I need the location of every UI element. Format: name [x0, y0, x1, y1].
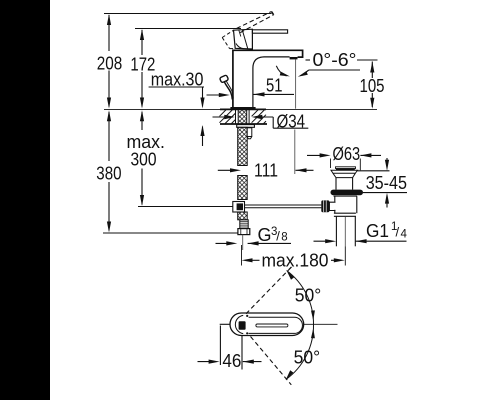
lever inner outline: [249, 317, 303, 333]
svg-text:8: 8: [281, 232, 287, 244]
handle housing (cartridge): [234, 29, 253, 49]
svg-text:max.30: max.30: [151, 69, 204, 89]
O-ring seal: [331, 190, 364, 196]
dim 111: [218, 169, 236, 171]
pop-up rod clamp at hose: [233, 202, 245, 213]
housing internal lines: [242, 30, 248, 49]
side port stem: [329, 202, 335, 210]
ext line left: [219, 326, 221, 366]
svg-text:300: 300: [131, 150, 157, 170]
deck top line: [104, 108, 220, 110]
centerline right: [304, 323, 338, 325]
faucet body outline: [233, 50, 303, 107]
knurled knob: [321, 200, 329, 212]
svg-text:50°: 50°: [295, 286, 322, 306]
dim 208: [108, 15, 110, 51]
drain centerline: [344, 217, 346, 246]
lever slot: [256, 324, 288, 327]
screw dots: [246, 315, 248, 317]
svg-text:G: G: [258, 225, 272, 245]
swing dashed upper: [246, 270, 289, 314]
hub inner arc: [235, 315, 243, 333]
supply hose lower: [238, 176, 248, 200]
ref line 380 bottom: [103, 232, 238, 234]
dim 380: [108, 112, 110, 161]
handle top view capsule: [230, 313, 304, 336]
hose below clamp: [238, 212, 248, 220]
lever (rest position): [252, 30, 287, 33]
svg-text:4: 4: [401, 229, 408, 241]
mounting shank through deck: [235, 109, 237, 124]
dim Ø63: [307, 154, 326, 156]
swing arc: [287, 271, 314, 325]
lifter wire: [224, 82, 232, 100]
svg-text:111: 111: [254, 161, 278, 181]
svg-text:G1: G1: [366, 221, 389, 241]
svg-text:Ø63: Ø63: [333, 144, 361, 164]
deck hatching: [220, 110, 226, 116]
swing dashed lower: [251, 337, 292, 385]
svg-text:Ø34: Ø34: [277, 111, 306, 131]
svg-text:max.180: max.180: [262, 250, 329, 270]
rod guide tube: [247, 128, 252, 137]
aerator outlet: [290, 57, 298, 59]
dim 51: [254, 93, 295, 95]
dim 172: [141, 30, 143, 55]
pop-up rod to drain: [245, 204, 322, 206]
left black sidebar: [0, 0, 50, 400]
svg-text:0°-6°: 0°-6°: [313, 50, 357, 70]
dim 35-45: [358, 170, 390, 172]
drain shoulder: [334, 212, 356, 214]
spout centerline: [295, 59, 297, 108]
tailpiece G1 1/4: [335, 216, 337, 246]
lever raised (dashed): [237, 12, 272, 29]
dim Ø34 hole with leader: [213, 116, 232, 118]
drain plug top: [336, 167, 356, 169]
housing ghost (dashed): [222, 30, 233, 37]
ext line hub center: [241, 336, 243, 370]
drain neck: [335, 178, 337, 190]
mounting nut plate: [237, 125, 255, 128]
deck bottom line: [220, 123, 267, 125]
dim 105: [371, 62, 373, 79]
svg-text:105: 105: [360, 76, 385, 96]
svg-text:51: 51: [266, 75, 283, 95]
svg-text:380: 380: [96, 164, 121, 184]
drain body: [334, 196, 336, 202]
hose threaded end: [240, 220, 248, 229]
dim 46: [198, 361, 216, 363]
pop-up lifter knob: [219, 75, 228, 83]
left stub line: [220, 323, 231, 325]
dim max.300: [141, 112, 143, 130]
base flange: [230, 107, 255, 110]
svg-text:50°: 50°: [294, 348, 321, 368]
svg-text:/: /: [396, 225, 400, 240]
ref line 208 top: [104, 13, 272, 15]
svg-text:208: 208: [97, 54, 123, 74]
svg-text:46: 46: [222, 351, 241, 371]
hub black dot: [239, 321, 246, 330]
ref line 172 top: [135, 28, 241, 30]
dim max.180: [242, 235, 244, 250]
svg-text:/: /: [276, 229, 280, 244]
hose end nut G3/8: [238, 229, 250, 235]
supply hose upper: [238, 127, 248, 165]
Ø63 extension lines: [330, 159, 332, 169]
drain flange: [331, 170, 358, 173]
svg-text:35-45: 35-45: [366, 173, 407, 193]
ref line max300 bottom / popup rod left: [138, 206, 233, 208]
swivel indicator 0-6 deg: [276, 66, 286, 76]
drain cone: [333, 173, 355, 177]
